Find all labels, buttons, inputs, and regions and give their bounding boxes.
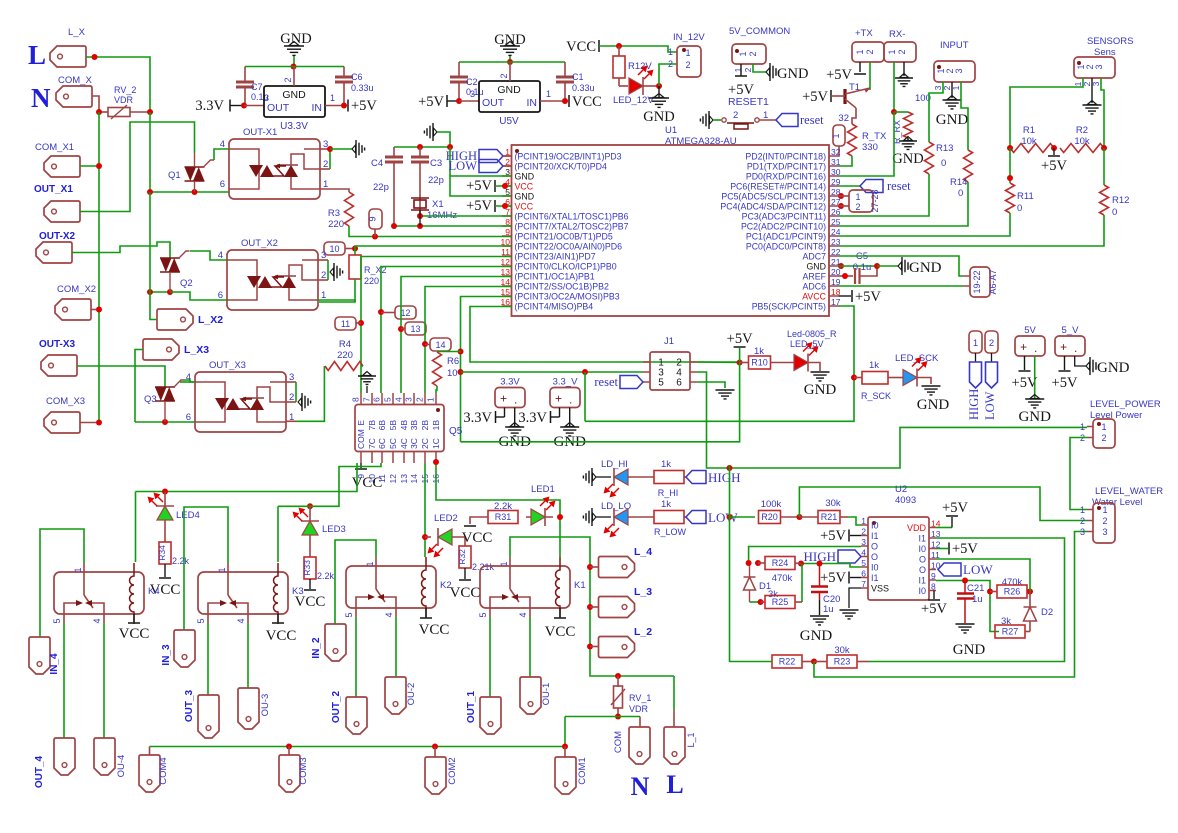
svg-text:VCC: VCC	[566, 39, 596, 55]
svg-text:R2: R2	[1076, 125, 1088, 136]
svg-text:12: 12	[400, 308, 410, 318]
wire	[450, 147, 512, 196]
wire	[86, 57, 150, 112]
svg-text:6: 6	[676, 378, 682, 389]
resistor R24	[746, 560, 752, 566]
svg-text:LOW: LOW	[963, 562, 993, 577]
wire	[961, 82, 968, 150]
svg-text:1: 1	[973, 338, 978, 349]
supply +5V	[739, 348, 741, 363]
svg-text:L: L	[666, 770, 683, 799]
svg-text:VDR: VDR	[114, 95, 134, 105]
svg-text:220: 220	[337, 350, 353, 361]
connector 10	[324, 242, 345, 255]
connector COM_X	[56, 86, 92, 107]
flag HIGH down	[975, 353, 977, 362]
pin 24	[829, 235, 839, 237]
svg-text:R24: R24	[772, 558, 789, 568]
svg-text:.: .	[569, 393, 572, 407]
svg-text:Led-0805_R: Led-0805_R	[787, 329, 837, 339]
supply 3.3V	[504, 408, 506, 418]
pin 21	[829, 265, 839, 267]
svg-text:1: 1	[855, 192, 860, 202]
wire	[509, 56, 511, 62]
svg-text:2.2k: 2.2k	[172, 556, 190, 566]
pin 22	[829, 255, 839, 257]
svg-text:1: 1	[426, 397, 436, 402]
pin 14	[929, 527, 936, 529]
svg-text:I0: I0	[918, 544, 926, 554]
svg-text:L_2: L_2	[634, 626, 652, 638]
svg-text:VCC: VCC	[515, 182, 534, 192]
connector 12	[395, 306, 416, 319]
svg-text:PD2(INT0/PCINT18): PD2(INT0/PCINT18)	[745, 152, 826, 162]
pin 16	[435, 452, 437, 464]
svg-text:12: 12	[501, 257, 511, 267]
resistor R25	[750, 601, 761, 603]
svg-text:VCC: VCC	[462, 530, 493, 546]
flag LOW down	[991, 353, 993, 362]
pin 19	[829, 285, 839, 287]
svg-text:+: +	[555, 392, 562, 406]
pin 25	[829, 225, 839, 227]
pin 3	[413, 393, 415, 405]
wire	[247, 623, 249, 688]
svg-text:5V: 5V	[1024, 325, 1036, 336]
pin 10	[502, 245, 512, 247]
svg-text:GND: GND	[936, 112, 969, 128]
svg-text:10: 10	[447, 368, 458, 379]
resistor R10	[740, 362, 749, 364]
svg-text:5V_COMMON: 5V_COMMON	[729, 26, 790, 37]
svg-text:R26: R26	[1004, 587, 1021, 597]
ground GND	[569, 408, 571, 427]
svg-text:L_X2: L_X2	[198, 314, 223, 326]
svg-text:COM2: COM2	[447, 757, 458, 784]
svg-text:D2: D2	[1041, 607, 1053, 618]
svg-text:3C: 3C	[409, 438, 419, 449]
svg-text:220: 220	[328, 219, 344, 230]
pin 1	[861, 524, 868, 526]
svg-text:U2: U2	[895, 484, 907, 495]
svg-text:N: N	[31, 83, 51, 113]
svg-text:0: 0	[941, 158, 946, 169]
svg-text:L_3: L_3	[634, 586, 652, 598]
svg-text:+TX: +TX	[855, 28, 873, 39]
svg-text:6C: 6C	[377, 438, 387, 449]
supply VCC coil K2	[425, 608, 427, 617]
svg-text:3: 3	[861, 537, 866, 547]
wire	[529, 617, 531, 677]
svg-text:OU-3: OU-3	[260, 694, 271, 717]
svg-text:(PCINT2/SS/OC1B)PB2: (PCINT2/SS/OC1B)PB2	[515, 282, 609, 292]
svg-text:1: 1	[73, 567, 83, 572]
svg-text:2: 2	[283, 77, 293, 82]
svg-text:GND: GND	[1097, 360, 1130, 376]
svg-text:.: .	[1074, 341, 1077, 355]
svg-text:COM: COM	[356, 429, 366, 449]
supply +5V pin8	[933, 591, 935, 600]
svg-text:5_V: 5_V	[1062, 325, 1080, 336]
svg-text:LED1: LED1	[531, 484, 555, 495]
supply +5V	[1024, 356, 1026, 370]
svg-text:(PCINT4/MISO)PB4: (PCINT4/MISO)PB4	[515, 302, 594, 312]
pin 4	[403, 393, 405, 405]
svg-text:R_HI: R_HI	[658, 488, 679, 498]
pin 2	[861, 535, 868, 537]
pin 32	[829, 155, 839, 157]
svg-text:E: E	[356, 420, 366, 426]
wire Q1 gate to opto pin4	[214, 149, 229, 160]
ground above Q5	[363, 372, 372, 376]
pin 11	[929, 558, 936, 560]
svg-text:1: 1	[738, 51, 748, 56]
led LED4	[164, 492, 166, 507]
svg-text:9: 9	[505, 227, 510, 237]
wire opto2 pin4	[190, 251, 227, 260]
svg-text:K4: K4	[148, 586, 160, 597]
svg-text:1k: 1k	[661, 499, 671, 510]
wire coil K3 up	[277, 506, 279, 562]
svg-text:ADC7: ADC7	[803, 252, 827, 262]
svg-text:R33: R33	[302, 560, 312, 576]
svg-text:VCC: VCC	[295, 594, 326, 610]
pin 6	[861, 577, 868, 579]
svg-text:1: 1	[887, 49, 897, 54]
connector COM3	[288, 747, 290, 756]
supply +5V pin14	[936, 527, 952, 529]
pin 13	[403, 452, 405, 464]
flag HIGH U2	[838, 550, 861, 563]
svg-text:R13: R13	[936, 143, 953, 154]
svg-text:5: 5	[344, 612, 354, 617]
wire opto2 pin6	[170, 292, 227, 300]
svg-text:U1: U1	[665, 125, 677, 136]
svg-text:3: 3	[470, 89, 475, 99]
connector OU-4	[94, 738, 115, 775]
wire	[149, 192, 151, 292]
wire opto1 pin3/2 gnd	[320, 168, 330, 170]
pin 14	[413, 452, 415, 464]
svg-text:+5V: +5V	[820, 528, 846, 544]
svg-text:+5V: +5V	[727, 331, 753, 347]
svg-text:(PCINT19/OC2B/INT1)PD3: (PCINT19/OC2B/INT1)PD3	[515, 152, 622, 162]
relay K1	[480, 566, 570, 608]
wire	[72, 242, 170, 258]
svg-text:X1: X1	[432, 199, 444, 210]
supply +5V pin2	[850, 535, 861, 537]
svg-text:GND: GND	[1018, 409, 1051, 425]
svg-text:OU-4: OU-4	[116, 755, 127, 778]
pin 18	[829, 295, 839, 297]
connector L_X2	[157, 309, 193, 330]
flag reset pin29	[860, 180, 883, 193]
svg-text:5: 5	[52, 618, 62, 623]
svg-text:RV_2: RV_2	[114, 85, 136, 95]
svg-text:330: 330	[862, 142, 878, 153]
connector COM_X1	[44, 156, 80, 177]
connector 2	[985, 331, 998, 353]
svg-text:PC3(ADC3/PCINT11): PC3(ADC3/PCINT11)	[742, 212, 826, 222]
svg-text:+: +	[500, 392, 507, 406]
wire	[437, 132, 450, 147]
wire	[781, 516, 800, 518]
svg-text:GND: GND	[643, 109, 674, 125]
connector 27-28	[838, 193, 844, 199]
svg-text:1: 1	[861, 516, 866, 526]
wire opto3 pin3/2	[286, 381, 296, 383]
wire opto2 pin3/2 gnd	[318, 279, 328, 281]
svg-text:2: 2	[415, 397, 425, 402]
svg-text:1C: 1C	[431, 438, 441, 449]
svg-text:SENSORS: SENSORS	[1087, 36, 1133, 47]
wire pin8	[394, 225, 512, 227]
ground	[1091, 78, 1093, 103]
svg-text:30k: 30k	[825, 498, 841, 509]
wire	[63, 623, 65, 738]
triac Q2	[160, 257, 180, 259]
wire pin10	[355, 246, 512, 249]
svg-text:3.3V: 3.3V	[500, 377, 520, 388]
svg-text:VDD: VDD	[907, 523, 927, 533]
wire	[659, 64, 677, 86]
wire	[207, 623, 209, 695]
svg-text:HIGH: HIGH	[967, 389, 981, 420]
svg-text:7C: 7C	[367, 438, 377, 449]
svg-text:L_1: L_1	[686, 732, 696, 747]
ground VSS pin7	[849, 588, 861, 608]
svg-text:24: 24	[831, 227, 841, 237]
pin 3	[861, 545, 868, 547]
wire J1 pin3	[461, 371, 644, 373]
svg-text:COM_X: COM_X	[58, 75, 92, 86]
battery 3.3_V	[550, 388, 580, 408]
svg-text:R11: R11	[1017, 191, 1034, 202]
supply VCC	[164, 564, 166, 577]
svg-text:3.3_V: 3.3_V	[553, 377, 578, 388]
wire	[893, 62, 895, 112]
svg-text:0.33u: 0.33u	[572, 83, 595, 93]
svg-text:I0: I0	[918, 586, 926, 596]
svg-text:3: 3	[1094, 64, 1104, 69]
wire	[599, 46, 677, 52]
pin 8	[929, 590, 936, 592]
svg-text:Q1: Q1	[168, 170, 181, 181]
pin 8	[360, 393, 362, 405]
pin 15	[502, 295, 512, 297]
connector L_2	[590, 646, 599, 648]
svg-text:OUT_2: OUT_2	[331, 690, 342, 723]
svg-text:+5V: +5V	[802, 89, 828, 105]
svg-text:Q3: Q3	[144, 394, 157, 405]
svg-text:C3: C3	[430, 158, 442, 169]
wire	[80, 122, 195, 212]
wire pin13	[401, 277, 512, 394]
svg-text:3: 3	[954, 68, 964, 73]
wire	[103, 623, 105, 738]
svg-text:PC5(ADC5/SCL/PCINT13): PC5(ADC5/SCL/PCINT13)	[721, 192, 826, 202]
svg-text:Q2: Q2	[180, 278, 193, 289]
svg-text:3.3V: 3.3V	[463, 410, 492, 426]
connector OU-3	[238, 688, 259, 729]
resistor R_SCK	[854, 377, 862, 379]
wire Q3 gate	[185, 380, 196, 382]
svg-text:1: 1	[546, 89, 551, 99]
svg-text:3: 3	[404, 397, 414, 402]
connector L_X3	[143, 339, 179, 360]
wire	[839, 112, 895, 176]
wire	[99, 111, 108, 113]
svg-text:OUT: OUT	[482, 97, 505, 109]
optocoupler OUT_X3	[195, 372, 286, 432]
wire	[839, 174, 930, 216]
varistor RV_1	[617, 676, 619, 687]
svg-text:R12: R12	[1112, 195, 1129, 206]
svg-text:4: 4	[236, 618, 246, 623]
pin 7	[861, 587, 868, 589]
pin 3	[502, 175, 512, 177]
svg-text:4: 4	[92, 618, 102, 623]
svg-text:2: 2	[748, 51, 758, 56]
wire	[1009, 148, 1011, 183]
wire coil K2 / LED2	[424, 463, 426, 557]
svg-text:2: 2	[861, 527, 866, 537]
svg-text:2: 2	[499, 73, 509, 78]
svg-text:13: 13	[501, 267, 511, 277]
ground GND	[907, 138, 909, 141]
wire	[244, 105, 264, 107]
wire	[461, 363, 740, 442]
wire opto3 pin1	[286, 420, 296, 422]
pin 11	[502, 255, 512, 257]
supply +5V	[1053, 148, 1055, 155]
svg-text:+5V: +5V	[921, 601, 947, 617]
triac Q1	[185, 166, 205, 168]
svg-text:L_4: L_4	[634, 546, 652, 558]
wire pin19	[839, 285, 964, 287]
svg-text:2: 2	[897, 49, 907, 54]
connector L_3	[590, 606, 599, 608]
wire J1 pin4	[697, 372, 1087, 468]
svg-text:OUT_3: OUT_3	[184, 689, 195, 722]
svg-text:22p: 22p	[373, 182, 389, 193]
pin 29	[829, 185, 839, 187]
wire pin15	[461, 297, 512, 442]
supply VCC	[464, 568, 466, 579]
ground GND	[658, 86, 660, 98]
ground GND	[811, 372, 830, 381]
svg-text:COM1: COM1	[577, 757, 588, 784]
wire	[80, 165, 99, 167]
svg-text:INPUT: INPUT	[940, 40, 969, 51]
connector COM1	[564, 747, 566, 758]
svg-text:2: 2	[685, 60, 690, 70]
ground GND	[951, 82, 953, 98]
svg-text:GND: GND	[806, 262, 826, 272]
svg-text:1: 1	[365, 561, 375, 566]
svg-text:LEVEL_POWER: LEVEL_POWER	[1090, 399, 1161, 410]
connector IN_4	[29, 637, 50, 674]
pin 7	[502, 215, 512, 217]
svg-text:4C: 4C	[399, 438, 409, 449]
wire pin21 GND	[838, 263, 844, 269]
svg-text:RX-: RX-	[889, 29, 905, 40]
ground	[434, 128, 438, 136]
pin 7	[371, 393, 373, 405]
connector OU-1	[520, 677, 541, 714]
wire coil net K4	[136, 463, 358, 492]
svg-text:5: 5	[658, 378, 664, 389]
capacitor C21	[964, 581, 966, 594]
wire	[729, 466, 731, 662]
svg-text:(PCINT20/XCK/T0)PD4: (PCINT20/XCK/T0)PD4	[515, 162, 607, 172]
wire pin7	[420, 215, 512, 217]
svg-text:VCC: VCC	[572, 94, 602, 110]
svg-text:.: .	[514, 393, 517, 407]
svg-text:LED_12V: LED_12V	[613, 95, 654, 106]
svg-text:AVCC: AVCC	[802, 292, 826, 302]
led LED_12V	[619, 85, 628, 87]
svg-text:R10: R10	[751, 358, 768, 368]
wire pin16	[470, 307, 740, 363]
svg-text:COM_X1: COM_X1	[35, 142, 74, 153]
pin 1	[325, 105, 344, 107]
connector IN_2	[325, 624, 346, 661]
svg-text:GND: GND	[909, 260, 942, 276]
wire pin12	[381, 267, 512, 394]
svg-text:PD0(RXD/PCINT16): PD0(RXD/PCINT16)	[746, 172, 826, 182]
svg-text:GND: GND	[515, 172, 535, 182]
svg-text:1k: 1k	[869, 360, 879, 371]
ground GND	[1075, 356, 1086, 366]
wire	[839, 182, 969, 226]
wire pin14	[425, 287, 512, 394]
svg-text:5: 5	[861, 558, 866, 568]
wire	[150, 291, 170, 293]
capacitor C6	[343, 67, 345, 78]
pin 5	[502, 195, 512, 197]
wire pin13 to R23	[869, 538, 1065, 662]
diode D2	[1029, 592, 1031, 608]
resistor R14	[964, 150, 973, 182]
svg-text:+: +	[1020, 340, 1027, 354]
svg-text:AREF: AREF	[803, 272, 827, 282]
svg-text:1: 1	[217, 567, 227, 572]
svg-text:(PCINT6/XTAL1/TOSC1)PB6: (PCINT6/XTAL1/TOSC1)PB6	[515, 212, 629, 222]
svg-text:6: 6	[861, 569, 866, 579]
pin 12	[929, 548, 936, 550]
svg-text:0.33u: 0.33u	[351, 83, 374, 93]
svg-text:R_SCK: R_SCK	[861, 391, 891, 401]
pin 12	[392, 452, 394, 464]
wire K1 pin1 to L bus	[510, 537, 590, 567]
wire	[759, 119, 776, 121]
voltage regulator U3.3V	[264, 86, 325, 117]
svg-text:26: 26	[831, 207, 841, 217]
svg-text:GND: GND	[892, 151, 923, 167]
svg-text:VSS: VSS	[871, 584, 889, 594]
svg-text:32: 32	[838, 113, 849, 124]
voltage regulator U5V	[479, 81, 540, 112]
wire pin5	[801, 564, 861, 568]
svg-text:5: 5	[478, 612, 488, 617]
svg-text:3.3V: 3.3V	[195, 98, 224, 114]
supply +5V	[347, 100, 349, 112]
svg-text:+5V: +5V	[1041, 158, 1067, 174]
svg-text:IN: IN	[527, 97, 538, 109]
svg-text:16: 16	[501, 297, 511, 307]
svg-text:PC0(ADC0/PCINT8): PC0(ADC0/PCINT8)	[746, 242, 826, 252]
